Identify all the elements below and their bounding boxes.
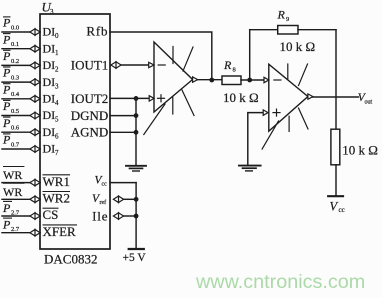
svg-text:0.4: 0.4	[11, 91, 20, 98]
svg-text:DI: DI	[43, 108, 56, 122]
svg-text:0.0: 0.0	[11, 24, 19, 31]
svg-text:5: 5	[55, 116, 59, 124]
svg-text:IOUT2: IOUT2	[71, 91, 109, 106]
svg-text:0.6: 0.6	[11, 125, 20, 132]
svg-text:IOUT1: IOUT1	[71, 58, 109, 73]
svg-text:Ile: Ile	[92, 208, 108, 223]
svg-text:DI: DI	[43, 142, 56, 156]
svg-text:8: 8	[233, 67, 236, 74]
svg-text:10 k Ω: 10 k Ω	[342, 142, 378, 157]
svg-text:0: 0	[55, 32, 59, 40]
svg-text:9: 9	[286, 16, 289, 23]
svg-text:0.7: 0.7	[11, 141, 20, 148]
svg-text:10 k Ω: 10 k Ω	[280, 39, 316, 54]
svg-text:2.7: 2.7	[11, 226, 20, 233]
svg-text:ref: ref	[100, 199, 107, 206]
svg-text:P: P	[2, 16, 11, 30]
svg-text:P: P	[2, 116, 11, 130]
svg-text:1: 1	[55, 49, 59, 57]
svg-text:cc: cc	[339, 206, 345, 214]
svg-text:P: P	[2, 99, 11, 113]
svg-text:0.3: 0.3	[11, 75, 19, 82]
svg-text:DI: DI	[43, 92, 56, 106]
svg-text:DI: DI	[43, 58, 56, 72]
svg-text:4: 4	[55, 99, 59, 107]
svg-text:Rfb: Rfb	[86, 24, 108, 39]
svg-text:P: P	[2, 49, 11, 63]
svg-text:P: P	[2, 133, 11, 147]
svg-text:0.5: 0.5	[11, 108, 19, 115]
svg-text:P: P	[2, 32, 11, 46]
svg-text:P: P	[2, 66, 11, 80]
svg-text:DI: DI	[43, 41, 56, 55]
svg-text:10 k Ω: 10 k Ω	[223, 90, 259, 105]
svg-text:WR2: WR2	[43, 191, 70, 206]
svg-text:6: 6	[55, 132, 59, 140]
svg-text:AGND: AGND	[71, 125, 109, 140]
svg-text:0.1: 0.1	[11, 41, 19, 48]
svg-text:DI: DI	[43, 75, 56, 89]
svg-text:CS: CS	[43, 207, 59, 222]
svg-text:0.2: 0.2	[11, 58, 19, 65]
svg-text:3: 3	[55, 82, 59, 90]
svg-text:DI: DI	[43, 125, 56, 139]
svg-text:XFER: XFER	[43, 224, 77, 239]
svg-text:out: out	[365, 100, 373, 106]
svg-text:+5 V: +5 V	[123, 252, 147, 264]
svg-text:P: P	[2, 82, 11, 96]
svg-text:WR1: WR1	[43, 174, 70, 189]
svg-text:2.7: 2.7	[11, 209, 20, 216]
svg-text:www.cntronics.com: www.cntronics.com	[195, 271, 365, 293]
svg-text:2: 2	[55, 66, 59, 74]
svg-text:WR: WR	[3, 185, 22, 199]
svg-text:DAC0832: DAC0832	[44, 252, 97, 267]
svg-text:7: 7	[55, 149, 59, 157]
svg-text:3: 3	[50, 8, 54, 16]
svg-text:cc: cc	[102, 182, 108, 188]
svg-text:P: P	[2, 201, 11, 215]
svg-text:R: R	[277, 8, 286, 22]
svg-text:V: V	[330, 200, 339, 214]
svg-text:R: R	[223, 58, 232, 72]
svg-text:WR: WR	[3, 168, 22, 182]
svg-text:DI: DI	[43, 25, 56, 39]
svg-text:DGND: DGND	[71, 108, 109, 123]
svg-text:P: P	[2, 218, 11, 232]
